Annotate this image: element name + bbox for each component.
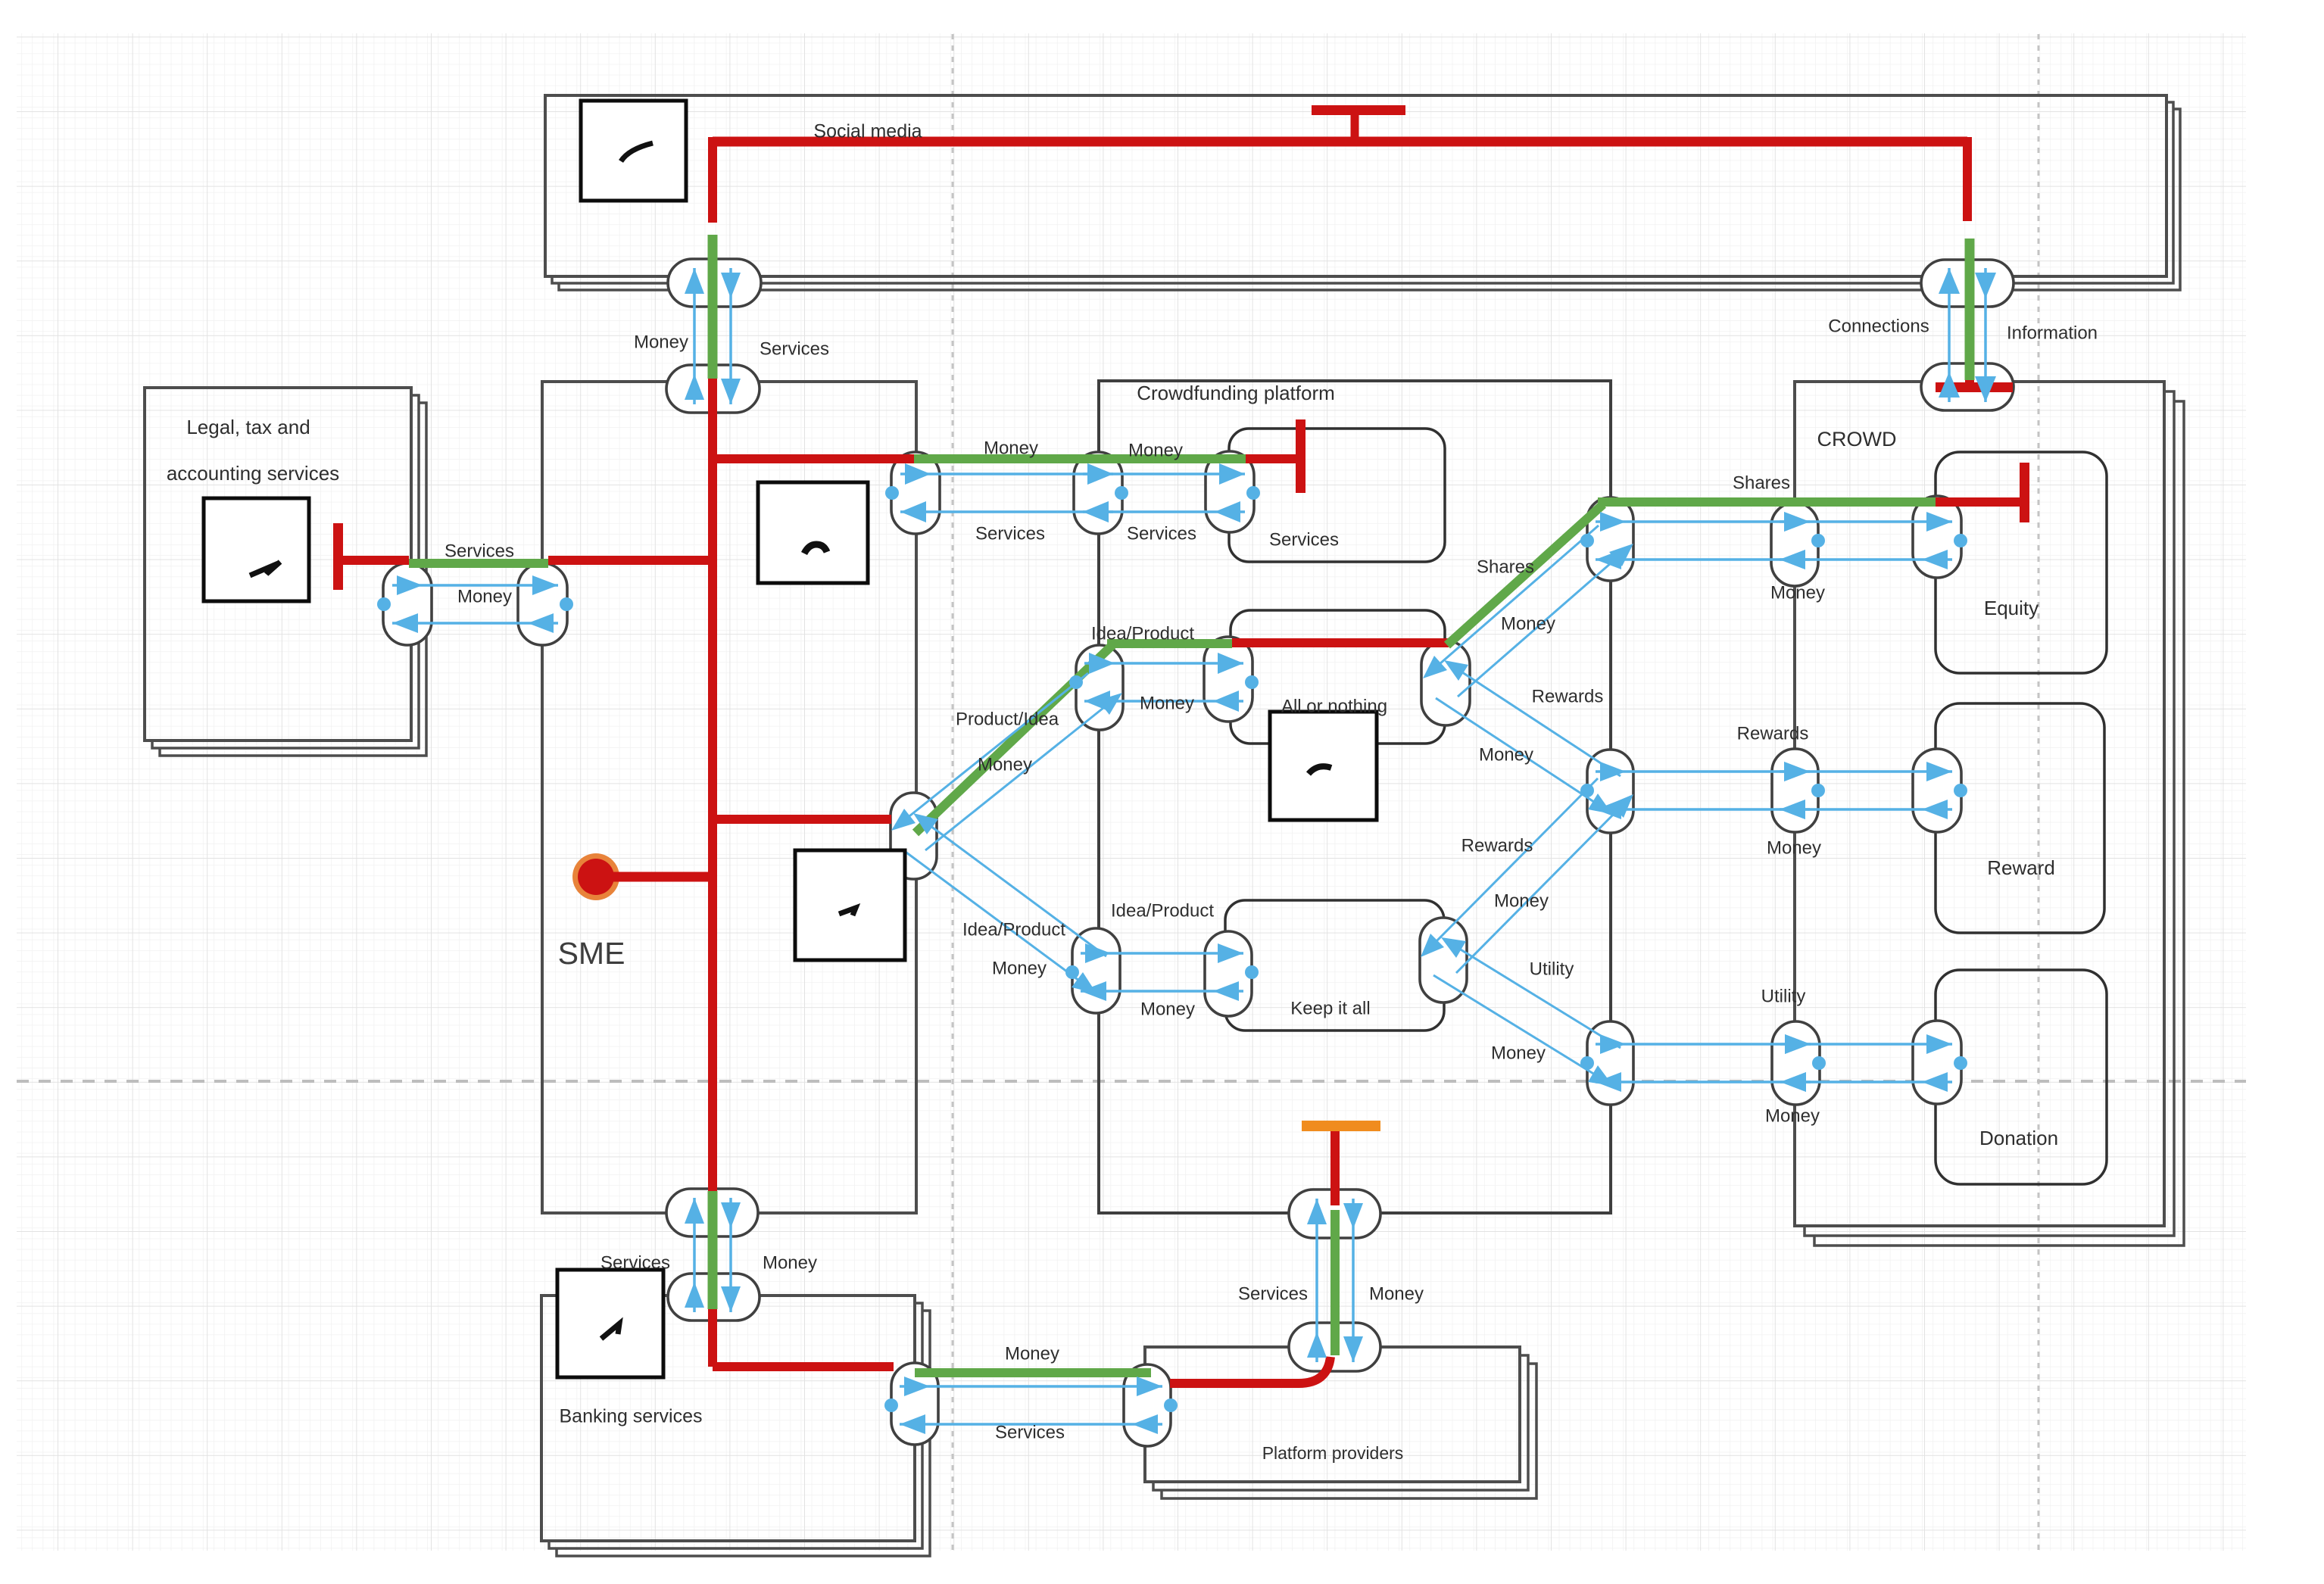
svg-text:Money: Money xyxy=(763,1252,817,1273)
value interface Banking services right xyxy=(891,1363,938,1445)
svg-text:Crowdfunding platform: Crowdfunding platform xyxy=(1137,382,1335,404)
path social media drop right xyxy=(1963,137,1972,221)
actor box Social media xyxy=(545,95,2180,290)
value interface Platform providers left xyxy=(1124,1364,1171,1446)
value interface CROWD edge Shares xyxy=(1771,503,1818,586)
value interface SME right lower xyxy=(891,793,937,879)
value exchange SocialMedia-CROWD Connections/Information xyxy=(1939,268,1996,402)
value interface CROWD top xyxy=(1921,363,2014,410)
svg-text:Services: Services xyxy=(995,1422,1065,1442)
svg-text:Utility: Utility xyxy=(1761,986,1806,1006)
svg-text:Services: Services xyxy=(1238,1283,1308,1304)
value exchange KIA-Utility hub diag xyxy=(1433,937,1621,1086)
path idea row red mid xyxy=(1232,638,1449,647)
actor box Platform providers xyxy=(1145,1347,1536,1498)
value interface Keep it all left xyxy=(1205,931,1252,1016)
value interface Social media bottom-right xyxy=(1921,260,2014,307)
icon social media xyxy=(581,101,686,201)
svg-text:Services: Services xyxy=(1127,523,1196,544)
path branch idea row xyxy=(713,815,891,824)
path social media drop left xyxy=(708,137,717,223)
path green banking-providers xyxy=(915,1368,1151,1377)
path green shares horizontal xyxy=(1598,497,1936,507)
svg-text:Product/Idea: Product/Idea xyxy=(956,709,1059,729)
svg-text:Shares: Shares xyxy=(1477,557,1534,577)
value exchange SME-platform Money/Services xyxy=(885,463,1128,522)
path money row red stub xyxy=(1246,454,1299,463)
value interface Platform providers top xyxy=(1289,1323,1380,1371)
svg-text:Keep it all: Keep it all xyxy=(1290,998,1370,1018)
svg-text:accounting services: accounting services xyxy=(167,462,339,485)
path green idea diagonal xyxy=(916,645,1112,833)
icon money xyxy=(758,482,868,583)
svg-text:Utility: Utility xyxy=(1530,959,1574,979)
icon product xyxy=(795,850,905,960)
value exchange CROWD-Reward Rewards/Money xyxy=(1780,762,1967,819)
value interface Crowdfunding platform left mid xyxy=(1076,645,1123,730)
path branch money row xyxy=(713,454,914,463)
svg-text:Idea/Product: Idea/Product xyxy=(962,919,1065,940)
svg-text:Idea/Product: Idea/Product xyxy=(1111,900,1214,921)
start stimulus xyxy=(572,853,619,900)
svg-text:Money: Money xyxy=(1765,1105,1820,1126)
value exchange SME-Banking Services/Money xyxy=(685,1198,741,1312)
path branch to legal xyxy=(548,556,713,565)
svg-text:Money: Money xyxy=(1140,999,1195,1019)
value exchange platform-AON Idea/Money xyxy=(1069,653,1259,712)
path green idea horizontal xyxy=(1107,639,1232,648)
value interface All or nothing right xyxy=(1421,641,1470,725)
path boundary bar CROWD top xyxy=(1936,382,2013,392)
svg-text:Information: Information xyxy=(2007,323,2098,343)
value interface SME top xyxy=(666,365,760,413)
value exchange platform-KIA Idea/Money xyxy=(1065,943,1259,1001)
value interface Donation left xyxy=(1913,1021,1961,1104)
path green social-CROWD xyxy=(1965,239,1975,380)
svg-text:All or nothing: All or nothing xyxy=(1281,696,1387,716)
value interface SME right upper xyxy=(891,452,940,534)
path boundary bar equity xyxy=(2020,463,2029,522)
svg-text:Money: Money xyxy=(992,958,1047,978)
page divider horizontal xyxy=(17,1080,2246,1083)
svg-text:Services: Services xyxy=(1269,529,1339,550)
path providers red up xyxy=(1330,1130,1340,1205)
svg-text:Money: Money xyxy=(1491,1043,1546,1063)
path green shares diagonal xyxy=(1447,504,1603,645)
svg-text:Money: Money xyxy=(1767,837,1821,858)
icon legal xyxy=(204,498,309,601)
svg-text:Money: Money xyxy=(1494,890,1549,911)
value exchange Platform-Providers Services/Money xyxy=(1307,1199,1363,1362)
path green legal services xyxy=(409,559,548,568)
value activity Reward xyxy=(1936,703,2104,933)
path banking red horizontal xyxy=(713,1362,894,1371)
path boundary bar services xyxy=(1296,419,1305,493)
value exchange Legal Services/Money xyxy=(377,575,573,633)
value exchange SME-platform Product-Idea diag xyxy=(891,673,1122,850)
value interface Social media bottom-left xyxy=(668,259,761,307)
svg-text:Money: Money xyxy=(1479,744,1533,765)
svg-text:Platform providers: Platform providers xyxy=(1262,1443,1404,1463)
svg-text:Money: Money xyxy=(978,754,1032,775)
path shares red stub xyxy=(1936,497,2020,507)
path providers bend xyxy=(1170,1357,1330,1383)
svg-text:Money: Money xyxy=(1005,1343,1059,1364)
value interface Reward left xyxy=(1913,749,1961,832)
value activity All or nothing xyxy=(1231,610,1445,744)
value interface SME left xyxy=(518,563,567,645)
icon banking xyxy=(557,1270,663,1377)
value interface Crowdfunding platform left upper xyxy=(1074,452,1122,534)
actor box Crowdfunding platform xyxy=(1099,381,1611,1213)
value activity Donation xyxy=(1936,970,2107,1184)
path AND bar top xyxy=(1312,105,1405,115)
svg-text:Reward: Reward xyxy=(1987,856,2055,879)
value exchange SME-platform Idea-Product diag xyxy=(903,813,1106,993)
actor box SME xyxy=(542,382,916,1213)
value interface Crowdfunding platform left lower xyxy=(1072,928,1120,1013)
svg-text:Services: Services xyxy=(760,338,829,359)
svg-text:Rewards: Rewards xyxy=(1737,723,1809,744)
svg-text:Shares: Shares xyxy=(1733,472,1790,493)
svg-text:Rewards: Rewards xyxy=(1532,686,1604,706)
value exchange hub-CROWD Shares/Money xyxy=(1580,512,1825,569)
value interface SME bottom xyxy=(666,1189,758,1236)
svg-text:Donation: Donation xyxy=(1979,1127,2058,1149)
value interface CROWD edge Utility xyxy=(1772,1021,1820,1105)
value exchange SocialMedia-SME Money/Services xyxy=(685,268,741,404)
value exchange AON-Shares hub diag xyxy=(1423,525,1633,697)
svg-text:Connections: Connections xyxy=(1828,316,1929,336)
path boundary bar orange xyxy=(1302,1121,1380,1131)
actor box Banking services xyxy=(541,1296,930,1556)
svg-text:SME: SME xyxy=(558,936,625,971)
value interface CROWD edge Rewards xyxy=(1772,749,1818,832)
value exchange AON-Rewards hub diag xyxy=(1436,660,1621,814)
value exchange platform-Services Money/Services xyxy=(1083,463,1260,522)
svg-text:Money: Money xyxy=(1369,1283,1424,1304)
value exchange hub-CROWD Utility/Money xyxy=(1580,1034,1826,1092)
svg-text:Services: Services xyxy=(600,1252,670,1273)
svg-text:Rewards: Rewards xyxy=(1461,835,1533,856)
page divider vertical 2 xyxy=(2038,34,2040,1551)
value exchange hub-CROWD Rewards/Money xyxy=(1580,762,1825,819)
svg-text:Services: Services xyxy=(445,541,514,561)
svg-text:Equity: Equity xyxy=(1984,597,2039,619)
value exchange CROWD-Donation Utility/Money xyxy=(1780,1034,1967,1092)
value interface Legal services right xyxy=(383,563,432,645)
value exchange Banking-Providers Money/Services xyxy=(884,1377,1178,1434)
svg-text:CROWD: CROWD xyxy=(1817,428,1897,451)
value interface Crowdfunding platform bottom xyxy=(1289,1190,1380,1238)
svg-text:Money: Money xyxy=(1501,613,1555,634)
path social media top run xyxy=(713,137,1967,147)
svg-text:Legal, tax and: Legal, tax and xyxy=(186,416,310,438)
actor box CROWD xyxy=(1795,382,2184,1246)
svg-text:Money: Money xyxy=(1770,582,1825,603)
path green SME-banking xyxy=(708,1191,718,1309)
svg-text:Money: Money xyxy=(984,438,1038,458)
value exchange KIA-Rewards hub diag xyxy=(1421,778,1633,973)
value interface All or nothing left xyxy=(1204,637,1252,722)
path green providers vertical xyxy=(1330,1210,1340,1355)
value activity Services xyxy=(1229,429,1445,562)
actor box Legal tax and accounting services xyxy=(145,388,426,756)
value interface platform hub Rewards xyxy=(1587,750,1633,833)
value interface platform hub Shares xyxy=(1587,497,1633,581)
icon all or nothing xyxy=(1270,712,1377,820)
path green social-SME xyxy=(708,235,718,379)
value interface platform hub Utility xyxy=(1587,1021,1633,1105)
svg-text:Social media: Social media xyxy=(813,121,922,142)
page divider vertical 1 xyxy=(952,34,954,1551)
path SME trunk xyxy=(708,379,717,1191)
path legal red stub xyxy=(342,556,409,565)
value interface Services activity left xyxy=(1206,451,1254,532)
path banking red vertical xyxy=(708,1309,717,1367)
svg-text:Banking services: Banking services xyxy=(560,1406,703,1427)
value exchange CROWD-Equity Shares/Money xyxy=(1780,512,1967,569)
path boundary bar legal xyxy=(333,523,343,590)
svg-text:Idea/Product: Idea/Product xyxy=(1091,623,1194,644)
svg-text:Money: Money xyxy=(1128,440,1183,460)
path green money row xyxy=(914,454,1246,463)
value interface Equity left xyxy=(1913,496,1961,578)
svg-text:Services: Services xyxy=(975,523,1045,544)
value interface Keep it all right xyxy=(1420,918,1467,1002)
svg-text:Money: Money xyxy=(634,332,688,352)
svg-text:Money: Money xyxy=(1140,693,1194,713)
svg-text:Money: Money xyxy=(457,586,512,606)
value activity Keep it all xyxy=(1225,900,1444,1031)
value activity Equity xyxy=(1936,452,2107,673)
value interface Banking services top xyxy=(668,1274,760,1321)
